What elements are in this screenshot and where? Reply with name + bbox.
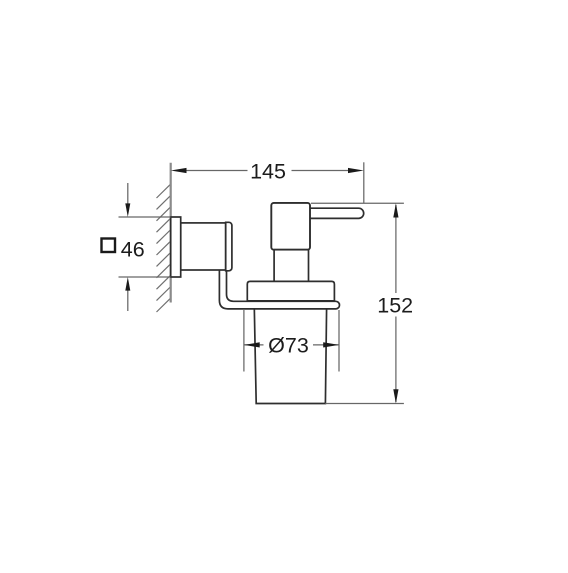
dimension 145 extension line (right) xyxy=(363,162,365,203)
wall line xyxy=(170,163,172,303)
dimension 46 extension lines xyxy=(119,217,171,277)
dimension 46 arrows xyxy=(125,203,130,290)
dimension 152 line xyxy=(395,205,397,402)
collar cap xyxy=(247,281,334,301)
svg-text:46: 46 xyxy=(121,237,145,261)
svg-text:152: 152 xyxy=(377,294,413,318)
dimension 145 line xyxy=(186,170,349,172)
arm end cap xyxy=(226,222,232,270)
dimension 152 extension lines xyxy=(311,203,404,403)
dimension diameter 73 line xyxy=(244,344,339,346)
dimension 152 arrows xyxy=(393,203,398,403)
wall arm xyxy=(181,223,226,270)
dimension 46 line segments xyxy=(127,183,129,311)
bottle xyxy=(254,308,326,404)
pump head xyxy=(271,203,310,250)
pump spout xyxy=(309,208,364,218)
svg-text:Ø73: Ø73 xyxy=(268,334,309,358)
holder stem and ring xyxy=(219,270,339,309)
dimension diameter 73 extension lines xyxy=(244,310,339,372)
wall flange xyxy=(171,217,181,277)
pump neck xyxy=(274,250,308,282)
wall hatching xyxy=(157,184,171,312)
dimension 145 arrows xyxy=(171,168,364,173)
svg-text:145: 145 xyxy=(250,159,286,183)
dimension diameter 73 arrows xyxy=(244,342,339,347)
square symbol xyxy=(102,239,116,253)
